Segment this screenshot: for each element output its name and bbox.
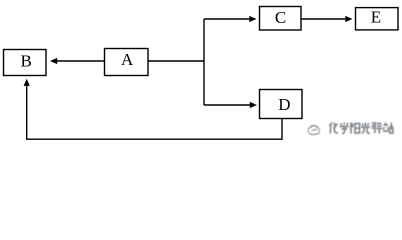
- svg-text:A: A: [121, 50, 134, 69]
- svg-text:E: E: [371, 7, 381, 26]
- svg-text:B: B: [21, 51, 32, 70]
- svg-text:D: D: [278, 95, 290, 114]
- svg-text:C: C: [275, 8, 286, 27]
